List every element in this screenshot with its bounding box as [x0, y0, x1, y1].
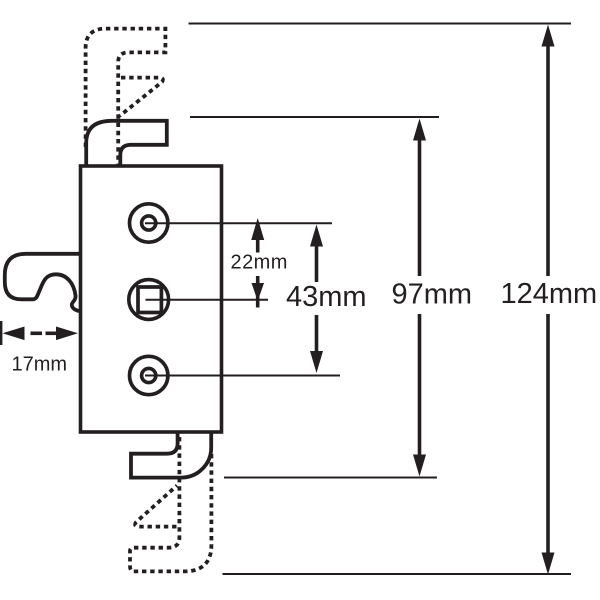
svg-text:97mm: 97mm — [392, 279, 473, 311]
svg-text:17mm: 17mm — [12, 354, 68, 376]
svg-text:22mm: 22mm — [231, 252, 288, 274]
svg-text:43mm: 43mm — [286, 281, 367, 313]
svg-text:124mm: 124mm — [501, 278, 598, 310]
